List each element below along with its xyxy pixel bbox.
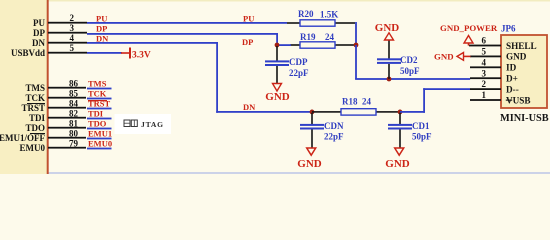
JTAG stub TRST	[87, 108, 112, 110]
pin 81 stub	[48, 127, 86, 129]
svg-text:SHELL: SHELL	[506, 41, 537, 51]
svg-text:PU: PU	[33, 18, 45, 28]
svg-text:80: 80	[69, 129, 79, 139]
wire DP junction to R19	[277, 44, 291, 46]
ground GND below CDN	[297, 148, 322, 170]
svg-text:GND: GND	[297, 158, 322, 170]
svg-text:R20: R20	[298, 9, 314, 19]
pin 5 stub	[48, 52, 87, 54]
pin 79 stub	[48, 147, 86, 149]
USB pin 2 stub	[470, 88, 501, 90]
svg-text:TDO: TDO	[88, 119, 107, 129]
svg-text:DN: DN	[96, 34, 109, 44]
wire DN horizontal bottom	[216, 111, 312, 113]
svg-text:PU: PU	[96, 14, 107, 24]
pin 82 stub	[48, 117, 86, 119]
svg-text:6: 6	[482, 36, 487, 46]
svg-text:GND: GND	[434, 52, 454, 62]
svg-text:EMU1/OFF: EMU1/OFF	[0, 133, 45, 143]
pin 80 stub	[48, 137, 86, 139]
svg-text:4: 4	[70, 33, 75, 43]
svg-text:ID: ID	[506, 63, 517, 73]
svg-text:JTAG: JTAG	[141, 120, 164, 129]
IC U? body (left, cut off)	[0, 0, 49, 174]
annotation box JTAG note	[115, 114, 172, 134]
wire USBVdd to 3.3V	[87, 52, 122, 54]
wire D- to corner	[400, 111, 425, 113]
svg-text:GND: GND	[265, 91, 290, 103]
junction DP/CDP node	[275, 43, 280, 48]
svg-text:TRST: TRST	[21, 103, 45, 113]
wire D- horizontal to USB pin 2	[423, 88, 470, 90]
svg-text:DN: DN	[32, 38, 45, 48]
svg-text:3.3V: 3.3V	[132, 51, 151, 61]
wire D- vertical rise	[423, 88, 425, 113]
JTAG stub TCK	[87, 98, 112, 100]
ground GND below CD1	[385, 148, 410, 170]
wire DP horizontal	[87, 33, 278, 35]
capacitor CDN	[300, 113, 344, 148]
resistor R20	[287, 9, 355, 26]
power port 3.3V	[121, 48, 151, 61]
svg-text:TCK: TCK	[25, 93, 45, 103]
svg-text:GND: GND	[375, 22, 400, 34]
svg-text:TDI: TDI	[88, 109, 104, 119]
wire DN horizontal	[87, 42, 218, 44]
svg-text:81: 81	[69, 119, 79, 129]
power port GND_POWER	[440, 23, 498, 46]
svg-text:TCK: TCK	[88, 89, 107, 99]
svg-text:EMU0: EMU0	[20, 143, 46, 153]
bottom sheet edge line	[0, 172, 550, 174]
svg-text:CDN: CDN	[324, 121, 344, 131]
wire DP vertical drop	[276, 33, 278, 46]
USB pin 3 stub	[470, 77, 501, 79]
pin 84 stub	[48, 107, 86, 109]
pin 85 stub	[48, 97, 86, 99]
junction DN/CDN	[310, 110, 315, 115]
svg-text:GND: GND	[506, 52, 527, 62]
svg-text:CD2: CD2	[400, 55, 418, 65]
svg-text:DP: DP	[242, 37, 253, 47]
resistor R19	[290, 32, 356, 48]
svg-text:2: 2	[70, 13, 75, 23]
USB pin 4 stub	[470, 66, 501, 68]
USB pin 5 stub	[470, 56, 501, 58]
svg-text:GND_POWER: GND_POWER	[440, 23, 498, 33]
capacitor CDP	[265, 46, 309, 84]
svg-text:DP: DP	[96, 24, 107, 34]
OFF overline	[30, 133, 45, 134]
svg-text:24: 24	[362, 97, 372, 107]
svg-text:D+: D+	[506, 74, 518, 84]
TRST overline	[27, 103, 45, 104]
JTAG stub EMU1	[87, 138, 112, 140]
svg-text:82: 82	[69, 109, 79, 119]
svg-text:USBVdd: USBVdd	[11, 48, 45, 58]
capacitor CD1	[388, 113, 432, 148]
svg-text:50pF: 50pF	[400, 66, 420, 76]
svg-text:R19: R19	[300, 32, 316, 42]
svg-text:TMS: TMS	[88, 79, 107, 89]
svg-text:79: 79	[69, 139, 79, 149]
JTAG stub TDI	[87, 118, 112, 120]
svg-text:3: 3	[482, 68, 487, 78]
svg-text:D--: D--	[506, 84, 519, 94]
junction CD2/D+	[387, 77, 392, 82]
svg-text:EMU1: EMU1	[88, 129, 112, 139]
svg-text:DN: DN	[243, 102, 256, 112]
svg-text:3: 3	[70, 23, 75, 33]
power port GND (arrow left)	[434, 52, 471, 62]
pin 86 stub	[48, 87, 86, 89]
svg-text:EMU0: EMU0	[88, 139, 112, 149]
svg-text:86: 86	[69, 79, 79, 89]
svg-text:TDI: TDI	[29, 113, 46, 123]
sheet background	[0, 0, 550, 174]
USB pin 6 stub	[469, 45, 501, 47]
svg-text:JP6: JP6	[501, 24, 516, 34]
USB pin 1 stub	[470, 99, 501, 101]
pin 2 stub	[48, 22, 87, 24]
svg-text:5: 5	[482, 47, 487, 57]
pin 4 stub	[48, 42, 87, 44]
svg-text:R18: R18	[342, 97, 358, 107]
svg-text:85: 85	[69, 89, 79, 99]
wire DN vertical drop	[216, 42, 218, 113]
svg-text:2: 2	[482, 79, 487, 89]
svg-text:22pF: 22pF	[324, 132, 344, 142]
svg-text:22pF: 22pF	[289, 68, 309, 78]
svg-text:50pF: 50pF	[412, 132, 432, 142]
junction R18/CD1	[398, 110, 403, 115]
svg-text:PU: PU	[243, 14, 254, 24]
JTAG stub TMS	[87, 88, 112, 90]
svg-text:5: 5	[70, 43, 75, 53]
svg-text:CDP: CDP	[289, 57, 308, 67]
wire R20 right corner down to node	[355, 22, 357, 45]
svg-text:TMS: TMS	[25, 83, 45, 93]
ground GND above CD2	[375, 22, 400, 40]
connector JP6 MINI-USB body	[500, 24, 549, 125]
svg-text:24: 24	[325, 32, 335, 42]
svg-text:GND: GND	[385, 158, 410, 170]
svg-text:TDO: TDO	[25, 123, 45, 133]
wire D+ horizontal to USB pin 3	[355, 78, 470, 80]
capacitor CD2	[377, 40, 420, 79]
ground GND below CDP	[265, 84, 290, 104]
svg-text:CD1: CD1	[412, 121, 430, 131]
svg-text:MINI-USB: MINI-USB	[500, 113, 549, 124]
svg-text:4: 4	[482, 57, 487, 67]
JTAG stub EMU0	[87, 148, 112, 150]
resistor R18	[312, 97, 400, 116]
pin 3 stub	[48, 32, 87, 34]
svg-text:DP: DP	[33, 28, 45, 38]
wire D+ vertical from node	[355, 45, 357, 79]
svg-text:1: 1	[482, 90, 487, 100]
svg-text:1.5K: 1.5K	[320, 10, 338, 20]
svg-text:84: 84	[69, 99, 79, 109]
top sheet edge line	[0, 0, 550, 2]
JTAG stub TDO	[87, 128, 112, 130]
wire PU horizontal	[87, 22, 287, 24]
junction R19/R20 node	[354, 43, 359, 48]
